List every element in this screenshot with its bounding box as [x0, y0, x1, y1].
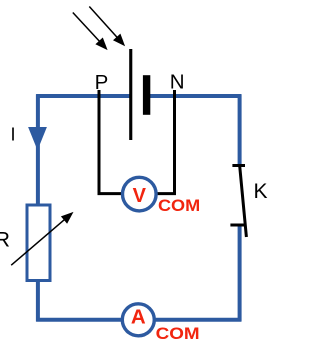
wire top-right segment: [143, 94, 241, 98]
voltmeter lead from N: [152, 90, 175, 194]
voltmeter lead from P: [99, 90, 126, 194]
wire bottom segment: [36, 318, 241, 322]
svg-text:P: P: [95, 71, 109, 94]
wire right side upper: [238, 94, 242, 166]
svg-text:K: K: [254, 180, 268, 203]
photovoltaic cell plate P (long thin electrode): [129, 49, 132, 140]
wire right side lower: [238, 225, 242, 322]
current direction arrow I: [28, 127, 47, 150]
svg-text:A: A: [131, 306, 146, 329]
svg-text:COM: COM: [158, 196, 200, 215]
light ray arrow 1: [73, 13, 108, 51]
photovoltaic cell plate N (short thick electrode): [143, 75, 150, 115]
wire top-left segment: [36, 94, 131, 98]
light ray arrow 2: [89, 7, 125, 47]
wire left side: [36, 94, 40, 321]
ammeter A: [122, 304, 154, 336]
switch K: [230, 166, 246, 238]
svg-text:V: V: [133, 185, 147, 207]
rheostat R (variable resistor): [11, 205, 73, 281]
svg-text:R: R: [0, 228, 10, 252]
voltmeter V: [123, 177, 157, 211]
svg-text:N: N: [170, 71, 185, 94]
svg-text:I: I: [11, 125, 16, 145]
svg-text:COM: COM: [156, 324, 200, 343]
